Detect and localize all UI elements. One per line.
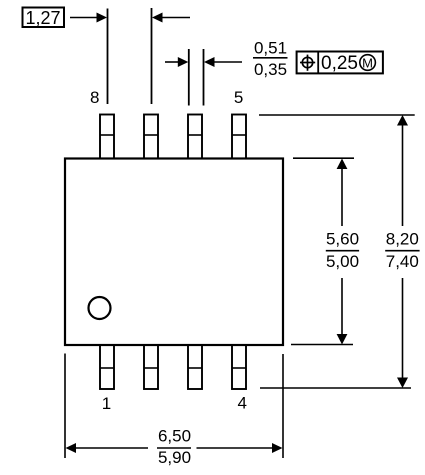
extension line pin 6 left edge [188, 49, 190, 106]
pin 4 [232, 345, 246, 389]
extension line body bottom right [291, 344, 353, 346]
svg-text:5,00: 5,00 [326, 252, 359, 271]
pin number 4 [237, 393, 246, 412]
extension line pin tops right [259, 114, 415, 116]
dimension label box 1,27 [23, 8, 65, 28]
arrow to pin 6 left edge [165, 57, 188, 67]
extension line pin 7 centerline [151, 8, 153, 104]
svg-text:5: 5 [234, 88, 243, 107]
arrow to pin 6 right edge [204, 57, 242, 67]
pin 2 [144, 345, 158, 389]
svg-text:8,20: 8,20 [386, 230, 419, 249]
pin number 5 [234, 88, 243, 107]
svg-text:M: M [362, 55, 373, 70]
pin 7 [144, 115, 158, 159]
pin 5 [232, 115, 246, 159]
extension line pin 8 centerline [107, 9, 109, 105]
extension line body right bottom [282, 354, 284, 458]
svg-text:6,50: 6,50 [158, 427, 191, 446]
svg-text:7,40: 7,40 [386, 252, 419, 271]
dimension text 0,51 / 0,35 [253, 39, 288, 80]
dimension text 5,60 / 5,00 [326, 230, 359, 271]
pin number 1 [102, 394, 111, 413]
extension line body left bottom [64, 354, 66, 459]
svg-text:0,25: 0,25 [321, 53, 358, 74]
pin 8 [100, 115, 114, 159]
dimension line 6,50/5,90 [66, 443, 283, 453]
extension line body top right [293, 157, 354, 159]
leader arrow from 1,27 box to pin 8 centerline [70, 13, 107, 23]
svg-text:1: 1 [102, 394, 111, 413]
feature control frame true position 0,25 M [297, 52, 383, 75]
extension line pin bottoms right [260, 387, 411, 389]
dimension line 5,60/5,00 [337, 159, 348, 345]
pin 3 [188, 345, 202, 389]
svg-text:5,60: 5,60 [326, 230, 359, 249]
pin 6 [188, 115, 202, 159]
arrow to pin 7 centerline [152, 13, 190, 23]
extension line pin 6 right edge [203, 49, 205, 106]
package body [65, 159, 283, 346]
pin 1 [100, 345, 114, 389]
svg-text:0,51: 0,51 [254, 39, 287, 58]
svg-text:5,90: 5,90 [158, 448, 191, 467]
dimension text 8,20 / 7,40 [385, 230, 419, 271]
pin 1 index circle [89, 297, 111, 319]
dimension text 6,50 / 5,90 [157, 427, 191, 468]
dimension line 8,20/7,40 [397, 115, 408, 388]
svg-text:0,35: 0,35 [254, 60, 287, 79]
pin number 8 [90, 88, 99, 107]
svg-text:4: 4 [237, 393, 246, 412]
svg-text:8: 8 [90, 88, 99, 107]
svg-text:1,27: 1,27 [25, 8, 60, 28]
